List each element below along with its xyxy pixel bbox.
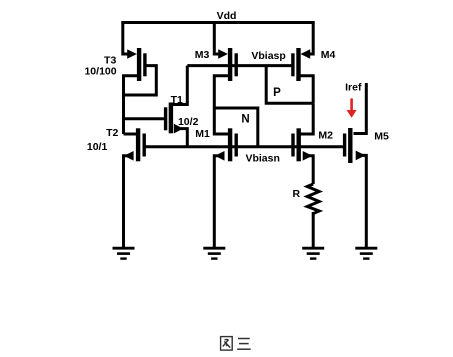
svg-text:10/2: 10/2	[178, 116, 199, 128]
svg-text:T1: T1	[171, 94, 183, 106]
transistor M3 gate bar	[235, 53, 238, 76]
transistor M1 source arrow	[215, 151, 225, 161]
transistor T2 channel bar	[136, 128, 140, 161]
wire Vbiasp line	[187, 64, 293, 67]
wire Vdd top rail	[121, 21, 314, 24]
ground T2	[113, 248, 135, 258]
wire resistor to ground	[312, 212, 315, 248]
transistor T1 gate bar	[164, 107, 167, 130]
transistor M2 source arrow	[303, 151, 313, 161]
wire M1 source to ground	[214, 156, 222, 248]
resistor R zigzag	[307, 184, 319, 214]
wire M4 source drop from Vdd	[307, 21, 313, 54]
wire T1 drain up to Vbiasp	[172, 66, 187, 105]
transistor T3 source arrow	[127, 49, 137, 59]
caption 图 (drawn glyph)	[221, 337, 233, 351]
ground M5	[355, 248, 377, 258]
svg-text:10/100: 10/100	[84, 66, 116, 78]
transistor M4 source arrow	[301, 49, 311, 59]
transistor M5 channel bar	[348, 128, 352, 163]
ground M1	[203, 248, 225, 258]
wire T2 source to ground	[124, 156, 133, 248]
svg-text:M5: M5	[374, 131, 389, 143]
wire M2 source to resistor	[305, 156, 313, 184]
wire node N	[214, 108, 257, 147]
svg-text:M2: M2	[318, 130, 333, 142]
wire M5 drain terminal	[354, 83, 367, 134]
svg-text:Vbiasn: Vbiasn	[245, 153, 279, 165]
wire node A to T1 gate	[124, 117, 166, 120]
wire M3 drain / M1 drain column	[214, 76, 229, 134]
transistor M1 gate bar	[235, 134, 238, 157]
svg-text:10/1: 10/1	[87, 141, 108, 153]
svg-text:T2: T2	[106, 127, 118, 139]
ground R	[302, 248, 324, 258]
wire T3 gate wrap to node A	[124, 66, 157, 95]
transistor T2 gate bar	[143, 134, 146, 157]
svg-text:M4: M4	[321, 49, 336, 61]
wire M5 source to ground	[358, 155, 366, 247]
transistor M2 gate bar	[291, 134, 294, 157]
wire T3 source drop from Vdd	[123, 21, 131, 54]
svg-text:Iref: Iref	[345, 82, 362, 94]
svg-text:R: R	[293, 188, 301, 200]
svg-text:M3: M3	[195, 49, 210, 61]
wire M2 drain to node P	[300, 103, 314, 134]
transistor T3 channel bar	[137, 48, 141, 81]
wire T1 source down to Vbiasn	[181, 129, 187, 147]
wire node P	[266, 66, 313, 104]
transistor M4 channel bar	[296, 48, 300, 81]
transistor T1 source arrow	[174, 124, 184, 134]
transistor M5 gate bar	[343, 134, 346, 157]
transistor M5 source arrow	[356, 151, 366, 161]
wire T3 drain to node A column	[124, 76, 138, 134]
transistor M1 channel bar	[228, 128, 232, 161]
svg-text:M1: M1	[195, 128, 210, 140]
Iref red arrow	[347, 98, 357, 117]
wire T2 drain lead	[124, 133, 138, 136]
transistor T1 channel bar	[169, 103, 173, 134]
transistor T2 source arrow	[124, 151, 134, 161]
transistor M3 channel bar	[228, 48, 232, 81]
svg-text:N: N	[241, 114, 249, 126]
transistor T3 gate bar	[143, 53, 146, 76]
wire M4 drain to node P	[300, 76, 314, 103]
caption 三 (drawn glyph)	[237, 339, 251, 350]
wire Vbiasn line	[143, 145, 346, 148]
transistor M3 source arrow	[218, 49, 228, 59]
svg-text:Vdd: Vdd	[217, 10, 237, 22]
transistor M4 gate bar	[291, 53, 294, 76]
svg-text:P: P	[273, 87, 281, 99]
svg-text:Vbiasp: Vbiasp	[251, 50, 285, 62]
transistor M2 channel bar	[297, 128, 301, 161]
wire M3 source drop from Vdd	[214, 21, 221, 54]
